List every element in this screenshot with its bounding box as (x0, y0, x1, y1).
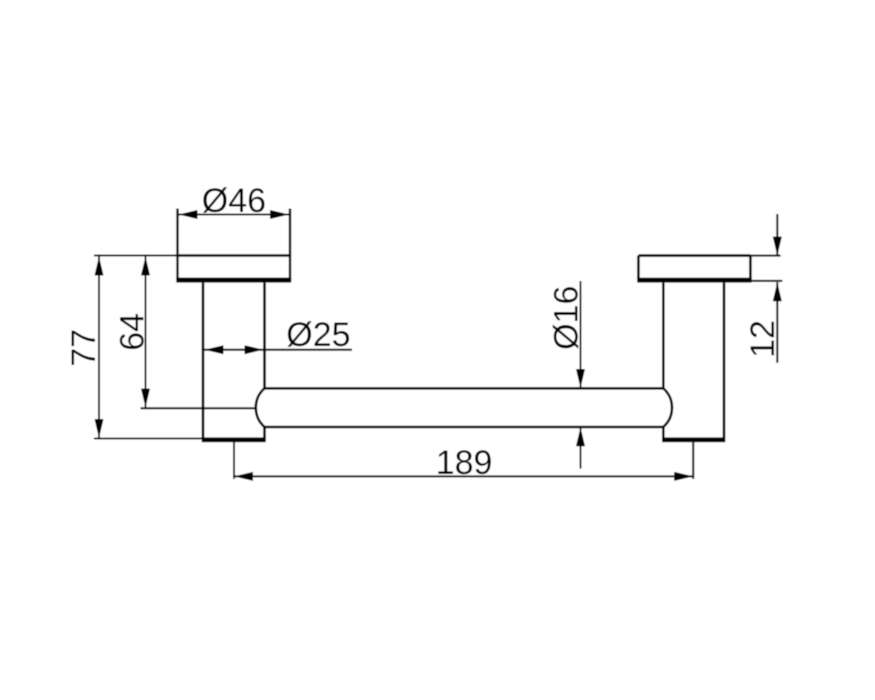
arrow 64 top (141, 257, 150, 276)
dim 12 upper dimension line (776, 214, 778, 256)
dim 12 bottom extension line (750, 280, 782, 282)
svg-text:Ø46: Ø46 (202, 182, 266, 220)
dim 189 left extension line (233, 442, 235, 479)
dim 77 dimension line (98, 256, 100, 439)
right flange left side (637, 256, 640, 280)
arrow 189 right (674, 472, 693, 481)
svg-text:189: 189 (436, 444, 493, 482)
left post right edge upper (263, 283, 266, 389)
svg-text:Ø16: Ø16 (547, 286, 585, 350)
arrow 12 up (below flange) (773, 282, 782, 301)
dim 189 right extension line (692, 440, 694, 479)
left post left edge (202, 283, 205, 438)
right post bottom thick line (662, 437, 725, 442)
arrow 77 bottom (95, 419, 104, 438)
left post right edge lower (263, 427, 266, 438)
left post bottom thick line (202, 437, 266, 442)
right post left edge upper (662, 283, 665, 389)
dim 77 bottom extension line (94, 438, 203, 440)
arrow Ø46 right (270, 210, 289, 219)
right flange top edge (638, 254, 750, 257)
dim 12 top extension line (750, 255, 780, 257)
left flange top edge (178, 254, 291, 257)
dim Ø25 dimension line (204, 349, 352, 351)
dim 12 lower dimension line (776, 282, 778, 362)
arrow Ø16 up (below bar) (576, 427, 585, 446)
svg-text:64: 64 (114, 313, 152, 351)
svg-text:Ø25: Ø25 (286, 316, 350, 354)
left flange left side (also ext line for Ø46) (176, 209, 178, 281)
dim Ø16 lower leader line (580, 427, 582, 468)
arrow Ø25 left (205, 345, 224, 354)
bar left end cap arc (256, 388, 265, 427)
left flange bottom thick line (176, 278, 291, 283)
dim 64 bottom extension line (141, 407, 257, 409)
dim 189 dimension line (234, 475, 693, 477)
right flange right side (749, 256, 752, 280)
right post right edge (723, 283, 726, 438)
svg-text:12: 12 (744, 320, 782, 358)
arrow Ø46 left (179, 210, 198, 219)
bar top edge (265, 387, 664, 390)
arrow 64 bottom (141, 389, 150, 408)
svg-text:77: 77 (65, 329, 103, 367)
arrow 12 down (above flange) (773, 237, 782, 256)
bar bottom edge (265, 426, 664, 429)
dim 77 top extension line (94, 255, 178, 257)
left flange right side (also ext line for Ø46) (289, 209, 291, 281)
arrow 189 left (234, 472, 253, 481)
arrow Ø16 down (above bar) (576, 369, 585, 388)
arrow 77 top (95, 257, 104, 276)
arrow Ø25 right (245, 345, 264, 354)
right flange bottom thick line (637, 278, 751, 283)
right post left edge lower (662, 427, 665, 438)
dim Ø16 upper leader line (580, 281, 582, 388)
dim Ø46 dimension line (178, 214, 291, 216)
dim 64 dimension line (145, 256, 147, 408)
bar right end cap arc (663, 388, 672, 427)
